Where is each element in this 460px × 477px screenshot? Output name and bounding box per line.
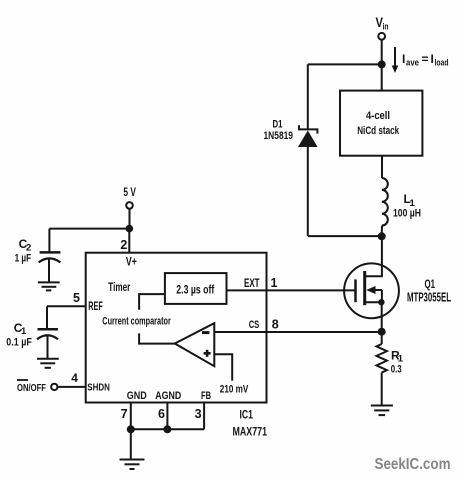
wire D1 anode down (307, 147, 309, 236)
svg-text:in: in (383, 22, 389, 33)
svg-text:ON/OFF: ON/OFF (17, 382, 46, 394)
svg-text:5 V: 5 V (123, 185, 135, 199)
svg-text:load: load (435, 58, 449, 69)
ground under C2 (38, 282, 60, 290)
wire AGND pin 6 (166, 403, 168, 430)
wire CS line comparator minus to node (214, 331, 381, 333)
svg-text:FB: FB (201, 390, 211, 402)
transistor Q1 MTP3055EL body circle (344, 263, 399, 318)
svg-text:AGND: AGND (155, 390, 181, 402)
ground under R1 (371, 406, 393, 416)
junction 5V node (126, 225, 134, 233)
svg-text:3: 3 (195, 407, 202, 421)
junction AGND dot (163, 425, 171, 433)
junction source/body dot (378, 299, 384, 305)
label ON/OFF with overline (17, 380, 46, 394)
svg-text:Timer: Timer (108, 280, 130, 294)
wire REF pin 5 (47, 305, 86, 307)
svg-text:MTP3055EL: MTP3055EL (407, 291, 451, 305)
wire SHDN pin 4 (58, 386, 86, 388)
svg-text:4: 4 (71, 371, 78, 385)
transistor Q1 channel bar (363, 271, 366, 305)
svg-text:REF: REF (88, 301, 103, 313)
wire top horizontal to D1 (308, 63, 382, 65)
wire FB pin 3 (203, 403, 205, 430)
svg-text:100 µH: 100 µH (393, 208, 421, 220)
label Iave = Iload (402, 52, 449, 69)
label Vin (376, 14, 389, 33)
svg-text:2: 2 (120, 238, 127, 252)
svg-text:V+: V+ (126, 254, 137, 268)
wire to bottom ground (130, 429, 132, 459)
wire V+ pin 2 (128, 229, 130, 253)
transistor Q1 body arrow (366, 286, 382, 302)
transistor Q1 gate bar (354, 279, 357, 302)
svg-text:1 µF: 1 µF (15, 253, 32, 265)
svg-text:0.1 µF: 0.1 µF (6, 337, 32, 349)
label R1 (391, 349, 404, 365)
svg-text:GND: GND (127, 390, 147, 402)
wire L1 to node (381, 226, 383, 237)
wire R1 to ground (381, 373, 383, 406)
svg-text:0.3: 0.3 (391, 364, 402, 376)
svg-text:2.3 µs off: 2.3 µs off (176, 284, 214, 296)
svg-text:SeekIC.com: SeekIC.com (375, 456, 451, 473)
wire 5V stem (129, 209, 131, 229)
wire bottom horizontal D1 to node (308, 235, 382, 237)
wire GND pin 7 (130, 403, 132, 430)
timer block 2.3 us off box (165, 273, 227, 304)
wire node to R1 (381, 332, 383, 344)
junction CS node (378, 328, 386, 336)
wire battery to L1 (381, 156, 383, 178)
svg-text:=: = (422, 52, 429, 66)
svg-text:I: I (402, 52, 405, 66)
wire 5V to C2 (49, 228, 129, 230)
svg-text:IC1: IC1 (240, 408, 254, 422)
svg-text:1: 1 (271, 276, 278, 290)
wire D1 cathode up (307, 64, 309, 129)
svg-text:7: 7 (121, 407, 128, 421)
op-amp current comparator triangle (175, 323, 215, 366)
svg-text:CS: CS (249, 319, 260, 331)
node ON/OFF terminal (51, 384, 57, 390)
svg-text:1N5819: 1N5819 (264, 130, 294, 142)
label C1 (14, 321, 27, 337)
current arrow Iave (392, 47, 399, 73)
wire drain (365, 236, 382, 276)
wire EXT to gate (227, 289, 356, 291)
resistor R1 zigzag (377, 344, 387, 373)
svg-text:SHDN: SHDN (87, 382, 110, 394)
label L1 (404, 192, 416, 209)
svg-text:Q1: Q1 (425, 279, 436, 291)
svg-text:210 mV: 210 mV (220, 383, 249, 395)
minus input sign (202, 331, 209, 334)
node 5V terminal (126, 202, 133, 209)
junction L1/drain node (378, 232, 386, 240)
wire comparator pointer (139, 333, 175, 343)
label C2 (19, 237, 32, 253)
inductor L1 (382, 178, 388, 226)
svg-text:5: 5 (73, 291, 80, 305)
svg-text:NiCd stack: NiCd stack (357, 125, 400, 137)
svg-text:8: 8 (272, 318, 279, 332)
wire source down (381, 302, 383, 332)
svg-text:ave: ave (406, 58, 419, 69)
wire ground bus (131, 428, 204, 430)
wire Vin stem (381, 40, 383, 65)
node Vin terminal (378, 33, 385, 40)
capacitor C1 (37, 306, 58, 358)
svg-text:6: 6 (158, 407, 165, 421)
plus input sign (204, 350, 211, 357)
IC box IC1 MAX771 (86, 253, 267, 403)
wire Timer pointer (139, 294, 165, 310)
wire Vin node to battery (381, 64, 383, 90)
diode D1 1N5819 schottky (298, 125, 318, 147)
ground bottom left (120, 460, 145, 470)
junction Vin node (378, 60, 386, 68)
wire plus input to 210mV (214, 354, 232, 380)
svg-text:EXT: EXT (244, 278, 260, 290)
svg-text:I: I (431, 52, 434, 66)
svg-text:1: 1 (21, 326, 27, 337)
transistor Q1 source lead (365, 301, 382, 303)
svg-text:Current comparator: Current comparator (102, 316, 171, 328)
capacitor C2 (39, 229, 61, 283)
svg-text:4-cell: 4-cell (366, 110, 390, 122)
battery 4-cell NiCd stack box (340, 91, 422, 156)
svg-text:D1: D1 (273, 119, 283, 131)
junction GND dot (127, 425, 135, 433)
ground under C1 (37, 359, 59, 368)
svg-text:MAX771: MAX771 (233, 425, 268, 439)
